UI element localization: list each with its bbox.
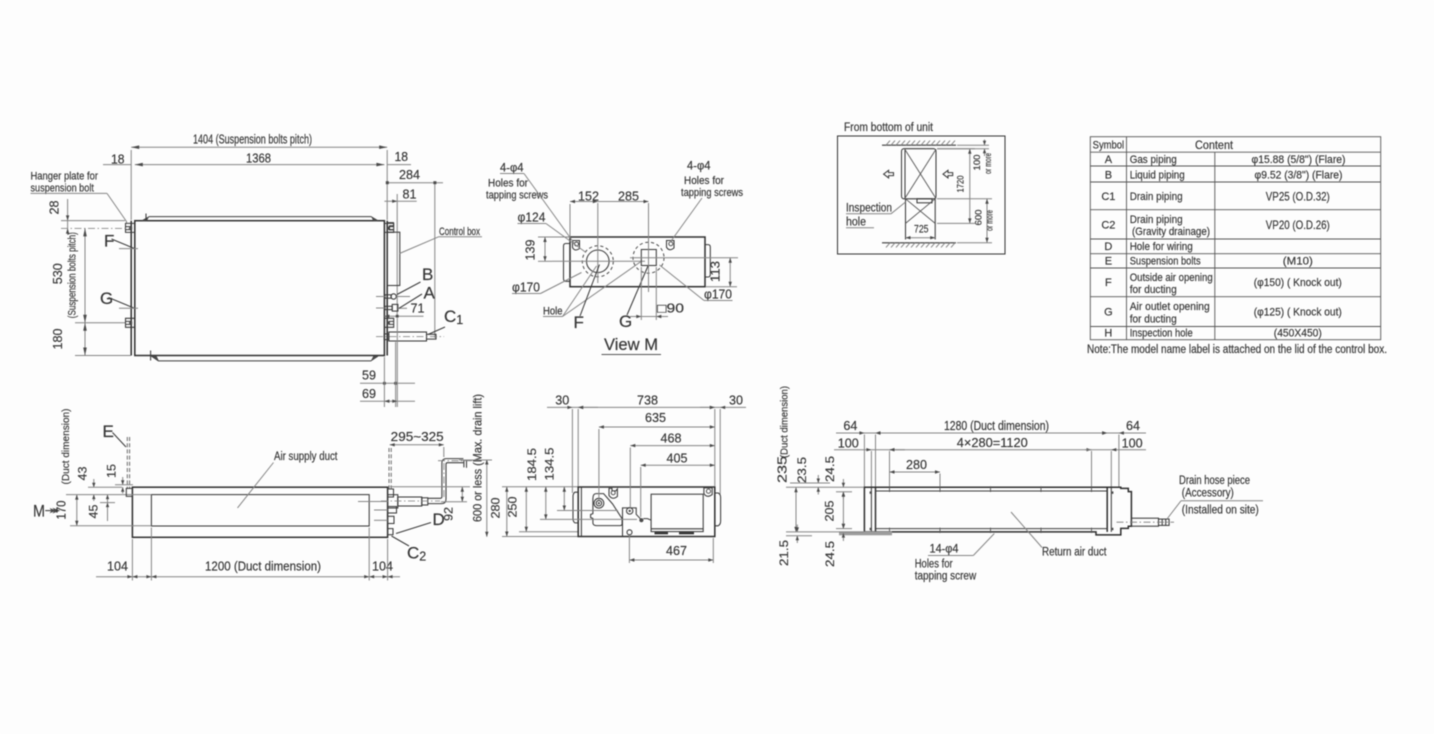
svg-text:H: H	[1104, 328, 1112, 340]
svg-text:4×280=1120: 4×280=1120	[957, 436, 1028, 450]
label C1 with leader	[428, 307, 463, 335]
svg-text:E: E	[1105, 256, 1112, 268]
svg-text:VP20 (O.D.26): VP20 (O.D.26)	[1266, 218, 1330, 232]
svg-text:100: 100	[838, 437, 859, 451]
dimension 113 (rotated)	[706, 258, 737, 287]
svg-text:C2: C2	[407, 544, 426, 564]
dimension 23.5 (rotated)	[790, 457, 830, 495]
inner drain pan box	[651, 494, 703, 533]
dimension 180 (rotated)	[51, 323, 131, 356]
svg-text:φ15.88 (5/8") (Flare): φ15.88 (5/8") (Flare)	[1252, 154, 1346, 166]
svg-text:23.5: 23.5	[795, 457, 809, 483]
airflow arrow left	[884, 170, 894, 178]
svg-text:for ducting: for ducting	[1130, 314, 1177, 326]
svg-text:Air outlet opening: Air outlet opening	[1130, 301, 1210, 313]
svg-text:(M10): (M10)	[1283, 256, 1313, 268]
φ124 label with leader	[518, 211, 587, 253]
svg-text:14-φ4: 14-φ4	[930, 544, 960, 556]
svg-text:635: 635	[645, 411, 666, 425]
svg-text:530: 530	[51, 263, 65, 284]
svg-text:(Accessory): (Accessory)	[1182, 488, 1234, 500]
svg-text:(Duct dimension): (Duct dimension)	[779, 386, 791, 458]
svg-text:Drain hose piece: Drain hose piece	[1179, 475, 1250, 487]
side wall screw dots	[870, 491, 1114, 530]
svg-text:Drain piping: Drain piping	[1130, 214, 1183, 226]
svg-text:Air supply duct: Air supply duct	[274, 451, 338, 463]
hanger plate (front view, right)	[388, 489, 394, 497]
suspension bolt (front view, left)	[127, 437, 129, 489]
dimension 18 (left)	[103, 153, 131, 167]
svg-text:C1: C1	[444, 307, 463, 327]
svg-text:or more: or more	[985, 210, 995, 231]
svg-text:(φ125) ( Knock out): (φ125) ( Knock out)	[1254, 307, 1342, 319]
hole F circle (φ124)	[552, 203, 645, 283]
svg-text:18: 18	[395, 150, 409, 164]
svg-text:C2: C2	[1101, 220, 1115, 232]
dimension 90sq	[630, 267, 684, 320]
svg-text:F: F	[1105, 277, 1112, 289]
svg-text:φ9.52 (3/8") (Flare): φ9.52 (3/8") (Flare)	[1255, 170, 1343, 182]
dimension 64 left	[836, 419, 898, 487]
tapping screw hole ticks (top row)	[890, 486, 1092, 492]
svg-text:Hanger plate for: Hanger plate for	[31, 171, 99, 183]
label B with leader	[397, 265, 434, 297]
dimension 24.5 lower (rotated)	[823, 522, 845, 568]
dimension 295~325	[390, 430, 444, 457]
svg-text:for ducting: for ducting	[1130, 284, 1177, 296]
knockout tab top-left	[573, 241, 580, 251]
dimension 64 right	[1090, 419, 1146, 487]
svg-text:(Duct dimension): (Duct dimension)	[60, 409, 72, 485]
dimension 284	[386, 168, 443, 338]
border frame	[838, 136, 1006, 254]
svg-text:□90: □90	[657, 302, 684, 316]
dimension 24.5 upper (rotated)	[823, 456, 852, 499]
svg-text:24.5: 24.5	[823, 456, 837, 482]
left duct flange bracket	[573, 492, 578, 523]
inspection hole opening with cross	[906, 199, 936, 240]
tapping screw hole ticks (bottom row)	[890, 528, 1092, 533]
svg-text:Drain piping: Drain piping	[1130, 191, 1183, 203]
svg-text:64: 64	[843, 419, 857, 433]
svg-text:64: 64	[1126, 419, 1140, 433]
ceiling line with hatching	[882, 141, 956, 146]
label G with leader	[100, 289, 138, 308]
4-φ4 holes label (left)	[486, 163, 574, 244]
left hanger bracket (side)	[564, 244, 571, 282]
svg-text:Hole for wiring: Hole for wiring	[1130, 241, 1193, 253]
svg-text:28: 28	[48, 200, 62, 214]
svg-text:21.5: 21.5	[777, 540, 791, 566]
svg-text:180: 180	[51, 328, 65, 349]
fitting A (gas piping)	[376, 304, 407, 311]
label A with leader	[399, 284, 436, 309]
svg-text:15: 15	[105, 464, 119, 478]
svg-text:Inspection hole: Inspection hole	[1130, 328, 1193, 340]
4-φ4 holes label (right)	[670, 161, 743, 243]
return duct walls and flanges	[871, 487, 1111, 532]
drain hose piece (return view)	[1117, 518, 1175, 526]
dimension 1368	[135, 152, 385, 167]
svg-text:tapping screw: tapping screw	[915, 571, 977, 583]
dimension 4x280=1120	[890, 436, 1092, 487]
dimension 15 (rotated)	[105, 464, 134, 494]
svg-text:134.5: 134.5	[543, 447, 557, 480]
svg-text:φ124: φ124	[518, 211, 546, 225]
dimension 285	[598, 190, 649, 204]
dimension 467	[629, 535, 713, 563]
svg-text:1200 (Duct dimension): 1200 (Duct dimension)	[205, 560, 321, 574]
dimension 725	[906, 224, 936, 240]
svg-text:Outside air opening: Outside air opening	[1130, 272, 1213, 284]
View M title	[602, 336, 662, 355]
dimension 184.5 (rotated)	[525, 448, 637, 520]
top panel flange edge with chamfer arrows	[142, 214, 378, 222]
label: Control box with leader	[400, 226, 483, 254]
svg-text:71: 71	[411, 302, 425, 316]
grey flange strip	[839, 531, 892, 535]
dimension 30 left	[547, 394, 598, 494]
svg-text:280: 280	[906, 458, 927, 472]
svg-text:suspension bolt: suspension bolt	[31, 183, 94, 195]
svg-text:600: 600	[974, 210, 985, 226]
dimension 235 (Duct dimension) rotated	[775, 386, 865, 532]
dimension 250 (rotated, side view)	[506, 487, 579, 532]
svg-text:Liquid piping: Liquid piping	[1130, 170, 1185, 182]
svg-text:A: A	[1105, 154, 1113, 166]
svg-text:Symbol: Symbol	[1093, 140, 1125, 152]
unit body outline (front)	[132, 487, 387, 537]
dimension 1280 (Duct dimension)	[876, 419, 1108, 435]
bottom dimension 104 / 1200 / 104	[96, 528, 400, 581]
svg-text:100: 100	[972, 155, 983, 171]
svg-text:738: 738	[637, 394, 658, 408]
floor line with hatching	[882, 243, 956, 248]
svg-text:280: 280	[489, 497, 503, 518]
svg-text:C1: C1	[1101, 191, 1115, 203]
svg-text:600 or less (Max. drain lift): 600 or less (Max. drain lift)	[471, 394, 485, 522]
dimension 100 or more (rotated)	[937, 140, 993, 175]
knockout tab top-right	[667, 241, 675, 250]
svg-text:B: B	[1105, 170, 1112, 182]
svg-text:(Gravity drainage): (Gravity drainage)	[1132, 226, 1210, 238]
svg-text:104: 104	[107, 560, 128, 574]
control box	[387, 223, 400, 286]
internal connection leader lines	[358, 502, 388, 521]
view arrow M	[33, 502, 60, 521]
svg-text:Holes for: Holes for	[488, 178, 528, 190]
dimension 69	[360, 318, 415, 407]
svg-text:A: A	[424, 284, 436, 303]
table grid	[1090, 137, 1380, 340]
small fitting row 3 (front right)	[388, 516, 394, 523]
svg-text:4-φ4: 4-φ4	[687, 161, 711, 173]
unit body (bottom silhouette with cross)	[902, 149, 937, 203]
svg-text:B: B	[422, 265, 433, 284]
svg-text:F: F	[574, 313, 584, 332]
svg-text:69: 69	[362, 387, 376, 401]
Hole label with two leaders	[543, 262, 641, 318]
dimension 152	[570, 190, 599, 237]
svg-text:139: 139	[524, 239, 538, 260]
svg-text:43: 43	[76, 466, 90, 480]
svg-text:F: F	[104, 232, 114, 251]
dimension 134.5 (rotated)	[543, 447, 619, 510]
svg-text:or more: or more	[983, 153, 993, 174]
dimension 280	[890, 458, 941, 487]
dimension 635	[599, 411, 715, 500]
dimension 1404 (Suspension bolts pitch)	[131, 133, 387, 221]
svg-text:725: 725	[914, 224, 929, 236]
svg-text:View M: View M	[604, 336, 658, 354]
unit body outline (return air side)	[864, 487, 1131, 535]
knockout tab (side view, fan top)	[609, 488, 617, 498]
svg-text:hole: hole	[846, 217, 866, 229]
label: Inspection hole	[846, 202, 906, 229]
dimension 43 (rotated)	[76, 466, 123, 501]
svg-text:Holes for: Holes for	[684, 175, 724, 187]
dimension 81	[384, 187, 416, 316]
hanger plate bottom-left	[126, 318, 135, 327]
dimension 59	[360, 342, 415, 407]
svg-text:Return air duct: Return air duct	[1042, 547, 1107, 559]
svg-text:(Suspension bolts pitch): (Suspension bolts pitch)	[67, 232, 79, 318]
hanger plate (front view, left)	[126, 488, 132, 496]
label: Air supply duct with leader	[238, 451, 339, 508]
svg-text:45: 45	[87, 504, 101, 518]
right duct flange bracket	[715, 493, 721, 526]
svg-text:G: G	[619, 312, 632, 331]
dimension 30 right	[700, 394, 746, 495]
svg-text:From bottom of unit: From bottom of unit	[844, 122, 934, 134]
label G (view M) with leader	[619, 266, 648, 331]
dimension 468	[630, 432, 715, 509]
svg-text:Suspension bolts: Suspension bolts	[1130, 256, 1201, 268]
dimension 205 (rotated)	[823, 492, 853, 529]
fitting B (liquid piping stub)	[376, 294, 396, 299]
svg-text:VP25 (O.D.32): VP25 (O.D.32)	[1266, 190, 1330, 204]
right hanger bracket (side)	[705, 245, 710, 277]
drain piping with riser (C2 pump-up)	[381, 456, 476, 508]
dimension 100 left	[834, 437, 905, 487]
hanger plate top-left	[126, 223, 135, 232]
dimension 738	[578, 394, 715, 410]
svg-text:205: 205	[823, 500, 837, 521]
dimension 170 (Duct dimension) rotated	[55, 409, 152, 526]
dimension 600 or more (rotated)	[937, 199, 995, 243]
view M body outline	[570, 237, 705, 287]
dimension 45 (rotated)	[87, 495, 116, 521]
svg-text:81: 81	[403, 187, 417, 201]
label C2 with leader	[392, 536, 427, 564]
label: Return air duct with leader	[1011, 512, 1107, 559]
svg-text:24.5: 24.5	[823, 541, 837, 567]
svg-text:tapping screws: tapping screws	[486, 190, 548, 202]
svg-text:φ170: φ170	[512, 281, 540, 295]
svg-text:4-φ4: 4-φ4	[500, 163, 524, 175]
svg-text:Content: Content	[1195, 138, 1234, 152]
svg-text:E: E	[103, 422, 114, 441]
label: 14-φ4 Holes for tapping screw with leader	[915, 534, 995, 583]
dimension 530 (Suspension bolts pitch) rotated	[51, 228, 125, 322]
svg-text:Control box: Control box	[439, 226, 480, 238]
svg-text:295~325: 295~325	[391, 430, 444, 444]
svg-text:235: 235	[775, 456, 790, 483]
svg-text:30: 30	[729, 394, 743, 408]
svg-text:1720: 1720	[956, 176, 967, 193]
φ170 label left with leader	[512, 273, 582, 295]
svg-text:(450X450): (450X450)	[1274, 328, 1322, 340]
svg-text:1404 (Suspension bolts pitch): 1404 (Suspension bolts pitch)	[193, 133, 312, 147]
svg-text:(Installed on site): (Installed on site)	[1182, 505, 1259, 517]
label E with leader	[103, 422, 127, 447]
svg-text:92: 92	[442, 507, 456, 521]
hanger plate top-right	[384, 223, 393, 232]
label F with leader	[104, 232, 138, 251]
svg-text:1368: 1368	[246, 152, 271, 166]
svg-text:170: 170	[55, 500, 69, 519]
small fitting row 2 (front right)	[388, 507, 397, 514]
svg-text:184.5: 184.5	[525, 448, 539, 481]
bottom panel flange edge with chamfer arrow	[151, 351, 378, 361]
dimension 92 (rotated)	[390, 487, 470, 521]
dimension 139 (rotated)	[524, 237, 570, 261]
svg-text:G: G	[1104, 307, 1113, 319]
unit body outline (side section)	[578, 487, 715, 537]
svg-text:59: 59	[362, 369, 376, 383]
svg-text:30: 30	[555, 394, 569, 408]
suspension bolt (front view, right)	[389, 448, 391, 490]
unit body outline (top view)	[131, 221, 387, 356]
drain pipe C1	[376, 332, 444, 341]
φ170 label right with leader	[660, 265, 733, 302]
svg-text:113: 113	[709, 261, 723, 282]
svg-text:100: 100	[1122, 437, 1143, 451]
label: Drain hose piece (Accessory) (Installed on site)	[1167, 475, 1263, 519]
svg-text:250: 250	[506, 496, 520, 517]
svg-text:Note:The model name label is a: Note:The model name label is attached on…	[1087, 344, 1387, 356]
svg-text:φ170: φ170	[704, 288, 732, 302]
fan and drain pump assembly	[591, 494, 652, 537]
knockout tab (side view, top right)	[704, 488, 712, 497]
label: Hanger plate for suspension bolt	[31, 171, 127, 224]
svg-text:Inspection: Inspection	[846, 203, 892, 215]
dimension 71	[384, 302, 424, 318]
dimension 28 (rotated)	[48, 199, 131, 234]
dimension 405	[641, 451, 715, 517]
label D with leader	[396, 510, 445, 534]
label F (view M) with leader	[574, 265, 600, 333]
air supply duct opening	[151, 495, 369, 526]
dimension 280 (rotated, side view height)	[489, 487, 579, 537]
svg-text:405: 405	[667, 451, 688, 465]
dimension 100 right	[1085, 437, 1146, 487]
dimension 1720 (rotated)	[937, 149, 975, 224]
svg-text:tapping screws: tapping screws	[681, 187, 743, 199]
svg-text:Hole: Hole	[543, 306, 563, 318]
svg-text:M: M	[33, 502, 45, 521]
dimension 600 or less (Max. drain lift) rotated	[459, 394, 492, 537]
svg-text:1280 (Duct dimension): 1280 (Duct dimension)	[944, 419, 1049, 433]
svg-text:Gas piping: Gas piping	[1130, 154, 1177, 166]
svg-text:(φ150) ( Knock out): (φ150) ( Knock out)	[1254, 277, 1342, 289]
svg-text:104: 104	[372, 560, 393, 574]
small fitting C2 (front right bottom)	[388, 529, 393, 535]
hole G square (90sq)	[630, 203, 738, 292]
dimension 18 (right)	[387, 150, 411, 165]
svg-text:D: D	[1104, 241, 1112, 253]
svg-text:284: 284	[399, 168, 420, 182]
hanger plate bottom-right	[384, 318, 393, 327]
svg-text:468: 468	[661, 432, 682, 446]
airflow arrow right	[943, 170, 953, 178]
svg-text:Holes for: Holes for	[915, 559, 953, 571]
dimension 21.5 (rotated)	[777, 525, 864, 567]
svg-text:467: 467	[666, 544, 687, 558]
